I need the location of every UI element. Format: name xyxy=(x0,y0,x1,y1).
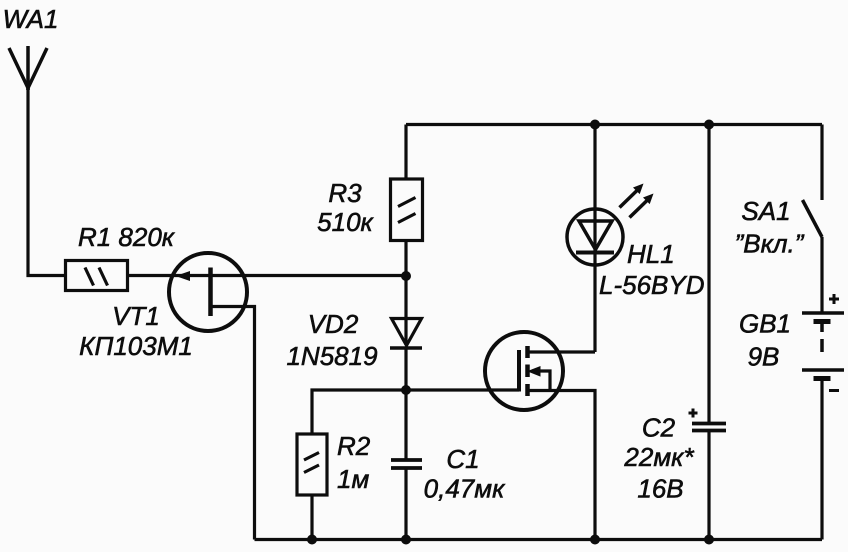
svg-text:1N5819: 1N5819 xyxy=(286,341,377,371)
wire node B to C1 xyxy=(404,390,407,459)
wire VD2 to node B xyxy=(404,348,407,390)
wire node B to MOSFET gate xyxy=(406,388,519,391)
wire C1 bottom xyxy=(404,468,407,540)
svg-text:510к: 510к xyxy=(317,207,374,237)
svg-text:22мк*: 22мк* xyxy=(623,442,694,472)
node HL1-top xyxy=(590,120,600,130)
resistor R2 xyxy=(297,434,327,495)
wire VT1 source to bottom rail xyxy=(211,307,255,540)
svg-text:КП103М1: КП103М1 xyxy=(79,331,193,361)
svg-text:GB1: GB1 xyxy=(739,309,791,339)
wire node A to VD2 xyxy=(404,276,407,345)
svg-text:R2: R2 xyxy=(337,431,371,461)
wire top rail to switch xyxy=(820,125,823,201)
svg-text:1м: 1м xyxy=(337,464,369,494)
transistor VT1 gate arrow xyxy=(176,271,191,281)
svg-text:VD2: VD2 xyxy=(308,309,359,339)
svg-text:R3: R3 xyxy=(328,178,362,208)
C2 plus sign xyxy=(689,409,698,418)
svg-text:0,47мк: 0,47мк xyxy=(424,474,506,504)
transistor VT2 (MOSFET) xyxy=(485,332,563,410)
wire C2 top xyxy=(707,125,710,424)
diode VD2 xyxy=(390,319,422,349)
resistor R1 xyxy=(66,261,128,291)
svg-text:C1: C1 xyxy=(446,444,479,474)
svg-text:9В: 9В xyxy=(748,342,780,372)
wire antenna to R1 xyxy=(28,88,66,276)
wire top rail xyxy=(406,123,822,126)
svg-text:R1 820к: R1 820к xyxy=(78,222,176,252)
svg-text:WA1: WA1 xyxy=(3,4,59,34)
wire R3 top xyxy=(404,125,407,180)
svg-text:C2: C2 xyxy=(642,413,676,443)
wire C2 bottom xyxy=(707,431,710,540)
node R2-bottom xyxy=(307,535,317,545)
wire R2 top to node B xyxy=(312,390,406,434)
wire R2 bottom xyxy=(310,495,313,540)
capacitor C1 xyxy=(391,460,422,468)
node C2-top xyxy=(704,120,714,130)
transistor VT1 xyxy=(169,253,247,331)
switch SA1 xyxy=(803,200,823,237)
GB1 plus sign xyxy=(829,294,839,304)
node A (drain VT1 / R3 / VD2) xyxy=(401,271,411,281)
svg-text:”Вкл.”: ”Вкл.” xyxy=(735,229,805,259)
wire R1 to node A (through VT1 gate) xyxy=(128,274,407,277)
node source-bottom xyxy=(590,535,600,545)
node C2-bottom xyxy=(704,535,714,545)
battery GB1 xyxy=(802,313,844,379)
GB1 minus sign xyxy=(829,389,839,392)
node C1-bottom xyxy=(401,535,411,545)
wire battery to bottom rail xyxy=(820,379,823,540)
wire switch to battery xyxy=(820,237,823,313)
wire HL1 column xyxy=(593,125,596,353)
LED HL1 xyxy=(567,209,623,265)
svg-text:SA1: SA1 xyxy=(741,196,790,226)
HL1 light arrow 1 xyxy=(620,184,644,208)
svg-text:L-56BYD: L-56BYD xyxy=(599,270,705,300)
resistor R3 xyxy=(391,179,423,241)
svg-text:16В: 16В xyxy=(637,474,683,504)
wire MOSFET source to bottom rail xyxy=(528,391,596,540)
capacitor C2 xyxy=(692,424,726,431)
HL1 light arrow 2 xyxy=(630,194,654,218)
svg-text:HL1: HL1 xyxy=(627,239,675,269)
wire MOSFET drain to HL1 xyxy=(528,350,596,353)
antenna WA1 xyxy=(9,46,47,90)
wire R3 bottom to node A xyxy=(404,241,407,277)
svg-text:VT1: VT1 xyxy=(112,301,160,331)
node B (gate node) xyxy=(401,385,411,395)
wire bottom rail xyxy=(255,538,823,541)
